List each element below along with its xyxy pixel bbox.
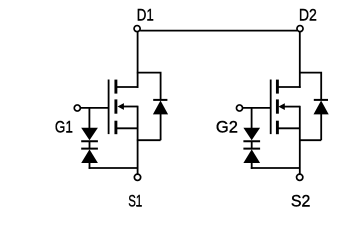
wire D2 down to Q2 drain <box>299 32 301 88</box>
label G1 digit foot <box>66 131 71 132</box>
node D2 terminal circle <box>297 26 303 32</box>
diode Z1a cathode bar <box>81 140 98 142</box>
node S1 terminal circle <box>134 174 140 180</box>
svg-text:D1: D1 <box>137 5 154 24</box>
svg-text:S2: S2 <box>291 191 311 210</box>
node G1 terminal circle <box>74 105 80 111</box>
wire Z1b to source rail <box>89 163 91 169</box>
wire S2 bottom rail <box>251 167 300 169</box>
diode D1b triangle <box>153 101 168 115</box>
wire drain branch to body diode D1b <box>137 73 161 100</box>
wire diode D2b jog to source <box>299 139 321 141</box>
wire Q1 drain lead <box>116 86 139 88</box>
wire between zeners Z2a Z2b <box>251 142 253 148</box>
transistor Q1 drain channel bar <box>114 80 117 94</box>
wire Q2 source down to S2 rail <box>299 106 301 168</box>
svg-text:S1: S1 <box>128 191 142 210</box>
diode Z2a cathode bar <box>243 140 260 142</box>
wire Q1 body lead with arrow <box>123 106 137 108</box>
wire S2 stub <box>299 168 301 174</box>
wire Z2b to source rail <box>251 163 253 169</box>
label D1 digit foot <box>148 19 153 20</box>
diode D2b cathode bar <box>314 99 328 101</box>
wire S1 bottom rail <box>89 167 138 169</box>
label S1 digit foot <box>136 205 141 206</box>
transistor Q1 substrate arrowhead <box>118 103 124 110</box>
diode Z2b cathode bar <box>243 148 260 150</box>
transistor Q1 gate plate <box>108 80 110 135</box>
transistor Q1 body channel bar <box>114 99 117 113</box>
node G2 terminal circle <box>236 105 242 111</box>
transistor Q2 gate plate <box>270 80 272 135</box>
diode Z2a triangle <box>243 128 260 141</box>
wire S1 stub <box>137 168 139 174</box>
wire G2 to gate <box>243 107 271 109</box>
wire diode D1b jog to source <box>137 139 161 141</box>
wire between zeners Z1a Z1b <box>89 142 91 148</box>
wire gate branch down to zener Z1a <box>88 108 90 128</box>
transistor Q2 drain channel bar <box>276 80 279 94</box>
node D1 terminal circle <box>134 26 140 32</box>
wire Q2 drain lead <box>277 86 300 88</box>
svg-text:G2: G2 <box>216 117 238 136</box>
wire Q2 source lead <box>278 127 300 129</box>
wire D1 to D2 top rail <box>140 30 297 32</box>
wire D1 down to Q1 drain <box>137 32 139 88</box>
transistor Q2 body channel bar <box>276 99 279 113</box>
svg-text:D2: D2 <box>299 5 317 24</box>
diode D1b cathode bar <box>153 99 167 101</box>
diode Z1a triangle <box>81 128 98 141</box>
wire gate branch down to zener Z2a <box>251 108 253 128</box>
transistor Q2 source channel bar <box>276 121 279 135</box>
wire G1 to gate <box>80 107 108 109</box>
wire Q2 body lead with arrow <box>284 106 300 108</box>
diode D2b triangle <box>314 101 329 115</box>
wire Q1 source down to S1 rail <box>137 106 139 168</box>
svg-text:G1: G1 <box>55 117 73 136</box>
transistor Q2 substrate arrowhead <box>278 103 284 110</box>
wire body diode D1b down <box>160 114 162 140</box>
diode Z1b cathode bar <box>81 148 98 150</box>
diode Z1b triangle <box>81 149 98 163</box>
wire drain branch to body diode D2b <box>299 73 321 100</box>
wire body diode D2b down <box>320 114 322 140</box>
wire Q1 source lead <box>117 127 138 129</box>
node S2 terminal circle <box>297 174 303 180</box>
transistor Q1 source channel bar <box>114 121 117 135</box>
diode Z2b triangle <box>243 149 260 163</box>
